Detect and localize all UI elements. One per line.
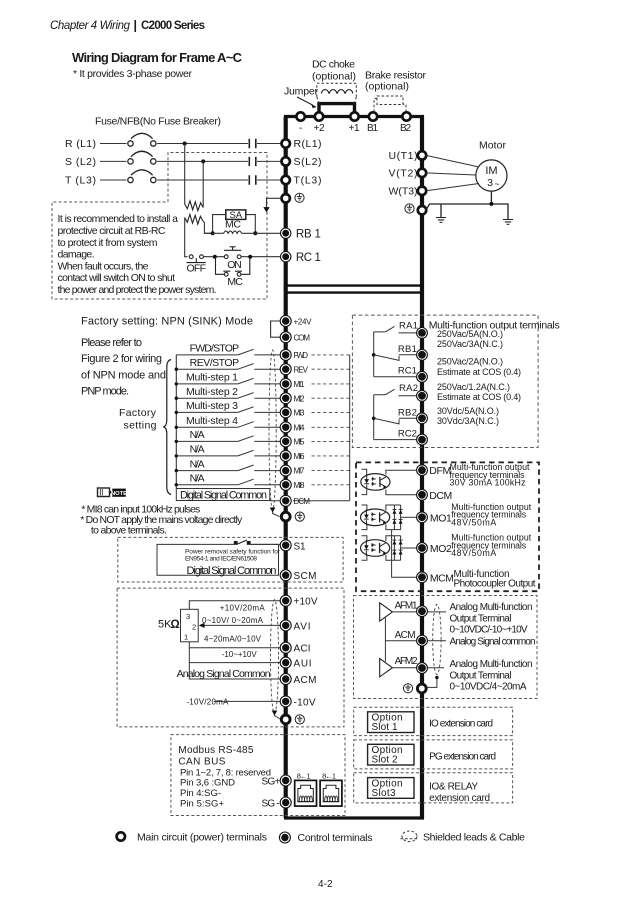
DC choke (optional) coil in dashed box (317, 83, 357, 103)
dashed link MI3 (312, 411, 350, 413)
svg-text:Jumper: Jumper (284, 86, 319, 98)
wire R to fuse (100, 143, 127, 145)
shielded cable ellipse (digital) (269, 350, 276, 510)
SA surge absorber box (226, 210, 246, 220)
earth at shield (503, 220, 513, 225)
junction on R line (183, 142, 187, 146)
svg-text:Output Terminal: Output Terminal (450, 613, 512, 624)
S1 dashed box (118, 537, 343, 582)
dashed link MI1 (312, 383, 350, 385)
svg-text:Slot3: Slot3 (372, 788, 396, 799)
svg-text:Figure 2 for wiring: Figure 2 for wiring (81, 353, 162, 365)
svg-text:Analog Multi-function: Analog Multi-function (450, 659, 533, 670)
svg-text:to above terminals.: to above terminals. (91, 525, 167, 537)
svg-text:to protect it from system: to protect it from system (58, 237, 158, 249)
svg-text:PG extension card: PG extension card (429, 751, 496, 762)
svg-text:-: - (299, 123, 302, 134)
legend shielded leads symbol (402, 831, 417, 842)
MC contactor coil (224, 231, 242, 233)
MO2 bracket wires (362, 536, 367, 561)
contactor contact S (249, 157, 256, 166)
svg-text:the power and protect the powe: the power and protect the power system. (58, 284, 217, 296)
pot pin1 to common (189, 642, 281, 679)
drive block bottom edge (284, 816, 424, 819)
right collector vertical (349, 355, 351, 501)
svg-text:MC: MC (227, 276, 243, 288)
svg-text:FWD/STOP: FWD/STOP (190, 343, 240, 355)
terminal -10V (280, 696, 291, 707)
svg-text:B1: B1 (367, 123, 378, 134)
svg-text:S (L2): S (L2) (65, 156, 96, 168)
wire MO1 to terminal (401, 516, 417, 518)
svg-text:MI7: MI7 (294, 467, 306, 476)
drive terminal S(L2) (282, 157, 290, 165)
svg-text:SCM: SCM (294, 571, 317, 582)
section separator double line (286, 286, 422, 293)
svg-text:Digital Signal Common: Digital Signal Common (187, 565, 277, 577)
svg-text:Analog Signal Common: Analog Signal Common (177, 668, 271, 680)
terminal MI2 (280, 393, 291, 404)
terminal MO1 (417, 512, 428, 523)
terminal ACI (280, 642, 291, 653)
svg-text:Ω: Ω (171, 619, 180, 631)
terminal +1 (350, 112, 358, 120)
RJ45 jack 1 (295, 780, 317, 806)
MO1 diode array (394, 505, 400, 530)
svg-text:T (L3): T (L3) (65, 175, 96, 187)
svg-text:REV: REV (294, 365, 309, 374)
svg-text:MI8: MI8 (294, 481, 306, 490)
drive left ground terminal (282, 194, 290, 202)
wire ON to RC1 (241, 256, 281, 258)
svg-text:Fuse/NFB(No Fuse Breaker): Fuse/NFB(No Fuse Breaker) (95, 116, 221, 128)
terminal RB1 (417, 349, 428, 360)
vertical from R junction (184, 144, 186, 205)
analog dashed box (117, 588, 344, 727)
terminal AVI (280, 620, 291, 631)
terminal +2 (315, 112, 323, 120)
terminal MI8 (280, 479, 291, 490)
svg-text:0~10VDC/4~20mA: 0~10VDC/4~20mA (450, 681, 527, 692)
protective circuit dashed boundary (52, 153, 267, 300)
terminal minus (296, 112, 304, 120)
svg-text:Estimate at COS (0.4): Estimate at COS (0.4) (437, 367, 521, 377)
switch N/A for MI8 (176, 484, 280, 486)
svg-text:N/A: N/A (190, 429, 205, 441)
analog output dashed box (354, 596, 538, 699)
svg-text:When fault occurs, the: When fault occurs, the (58, 260, 149, 272)
svg-text:30Vdc/5A(N.O.): 30Vdc/5A(N.O.) (437, 406, 499, 416)
OFF pushbutton (N.C.) (187, 255, 206, 263)
wire pot wiper to AVI with arrow (201, 624, 281, 626)
legend control terminal (279, 832, 290, 843)
svg-text:MI5: MI5 (294, 438, 306, 447)
svg-text:-10V/20mA: -10V/20mA (186, 698, 229, 707)
svg-text:Multi-step 2: Multi-step 2 (186, 386, 238, 398)
svg-text:~: ~ (494, 179, 499, 189)
relay RB1 N.C. contact (374, 355, 417, 361)
svg-text:8←1: 8←1 (322, 771, 336, 780)
svg-text:RA2: RA2 (399, 383, 418, 394)
svg-text:+24V: +24V (294, 317, 313, 326)
page header: chapter title (50, 19, 205, 33)
earth at motor frame (436, 218, 446, 223)
amp link vertical (384, 617, 386, 662)
svg-text:(optional): (optional) (312, 71, 356, 83)
wire -10V (214, 700, 281, 702)
svg-text:Chapter 4 Wiring: Chapter 4 Wiring (50, 20, 131, 32)
dashed link MI7 (312, 470, 350, 472)
wire S contact to terminal (257, 160, 282, 162)
svg-text:DCM: DCM (294, 497, 311, 506)
dashed link MI6 (312, 455, 350, 457)
svg-text:Wiring Diagram for Frame A~C: Wiring Diagram for Frame A~C (72, 50, 243, 65)
svg-text:S1: S1 (294, 541, 306, 552)
svg-text:1: 1 (184, 633, 188, 642)
RJ45 jack 2 (320, 780, 342, 806)
MC auxiliary contact branch (216, 257, 250, 276)
svg-text:of NPN mode and: of NPN mode and (81, 369, 166, 381)
switch N/A for MI7 (176, 470, 280, 472)
modbus dashed box (171, 735, 345, 816)
svg-text:setting: setting (124, 420, 157, 432)
svg-text:AVI: AVI (294, 621, 311, 632)
svg-text:Main circuit (power) terminals: Main circuit (power) terminals (137, 831, 267, 843)
terminal MI6 (280, 450, 291, 461)
svg-text:Photocoupler Output: Photocoupler Output (454, 579, 536, 590)
relay RB2 N.C. contact (374, 418, 417, 424)
wire resistor to MC coil node (203, 221, 213, 233)
svg-text:NOTE: NOTE (111, 491, 127, 497)
wire left branch down to OFF switch (185, 218, 188, 257)
option slot 3 box (368, 778, 414, 799)
svg-text:N/A: N/A (190, 458, 205, 470)
svg-text:+1: +1 (349, 123, 360, 134)
svg-text:Modbus RS-485: Modbus RS-485 (178, 745, 253, 756)
contactor contact R (249, 139, 256, 148)
ground stub into protective box (267, 198, 282, 208)
wire R fuse to contact (157, 143, 248, 145)
amplifier AFM1 (380, 603, 393, 621)
optocoupler MO2 (361, 540, 390, 557)
drive right ground terminal (405, 204, 414, 213)
svg-text:Pin 3,6 :GND: Pin 3,6 :GND (180, 778, 235, 789)
svg-text:IO& RELAY: IO& RELAY (429, 782, 478, 793)
wire MO2 to terminal (401, 547, 417, 549)
terminal +24V (280, 316, 291, 327)
svg-text:Analog Multi-function: Analog Multi-function (450, 602, 533, 613)
ON pushbutton (N.O.) (224, 247, 241, 259)
relay RC2 common wire (374, 439, 417, 441)
terminal ACM out (417, 635, 428, 646)
svg-text:3: 3 (186, 612, 190, 621)
svg-text:Output Terminal: Output Terminal (450, 670, 512, 681)
svg-text:Analog Signal common: Analog Signal common (450, 636, 536, 647)
junction on S line (201, 159, 205, 163)
legend main circuit terminal (117, 832, 125, 840)
svg-text:3: 3 (487, 177, 493, 189)
contactor contact T (249, 175, 256, 184)
dashed link MI8 (312, 484, 350, 486)
dashed link FWD (312, 354, 350, 356)
svg-text:RC 1: RC 1 (296, 252, 321, 264)
svg-text:Please refer to: Please refer to (81, 337, 142, 349)
wire AUI (190, 662, 281, 664)
switch FWD/STOP for FWD (176, 354, 280, 356)
drive block left bus (284, 117, 288, 819)
svg-text:48V/50mA: 48V/50mA (451, 517, 496, 527)
shielded cable ellipse (analog) (271, 600, 279, 714)
resistor upper (to RB) (185, 201, 204, 211)
terminal MI4 (280, 422, 291, 433)
relay RC1 common wire (374, 376, 417, 378)
switch Multi-step 1 for MI1 (176, 383, 280, 385)
svg-text:2: 2 (192, 623, 196, 632)
digital input common vertical (175, 355, 177, 489)
terminal B2 (402, 112, 410, 120)
MO1 bracket wires (362, 505, 367, 530)
svg-text:Motor: Motor (479, 140, 507, 152)
svg-text:8←1: 8←1 (297, 771, 311, 780)
multi-function output dashed box (352, 315, 538, 447)
svg-text:Slot 1: Slot 1 (372, 722, 398, 733)
svg-text:RB2: RB2 (398, 408, 417, 419)
terminal RA2 (417, 390, 428, 401)
relay 2 common vertical (373, 395, 375, 440)
svg-text:DCM: DCM (429, 490, 452, 502)
svg-text:RB 1: RB 1 (296, 228, 321, 240)
cable drain arrow (275, 714, 281, 720)
svg-text:DFM: DFM (429, 465, 451, 477)
switch Multi-step 2 for MI2 (176, 397, 280, 399)
svg-text:T(L3): T(L3) (294, 175, 322, 187)
wire ACM out (385, 640, 446, 642)
svg-text:4~20mA/0~10V: 4~20mA/0~10V (204, 634, 262, 643)
terminal MI7 (280, 465, 291, 476)
svg-text:EN954-1 and IEC/EN61508: EN954-1 and IEC/EN61508 (185, 556, 257, 563)
svg-text:MO2: MO2 (430, 543, 452, 555)
drive block right bus (420, 117, 424, 819)
svg-text:Control terminals: Control terminals (298, 832, 373, 844)
switch Multi-step 4 for MI4 (176, 426, 280, 428)
svg-text:REV/STOP: REV/STOP (190, 357, 240, 369)
svg-text:IM: IM (485, 165, 497, 177)
resistor lower (to RC) (185, 214, 203, 224)
brake resistor (optional) dashed box (374, 96, 406, 112)
svg-text:30V 30mA 100kHz: 30V 30mA 100kHz (450, 478, 526, 488)
dashed link MI2 (312, 397, 350, 399)
recommendation note text (58, 213, 217, 296)
svg-text:+2: +2 (314, 123, 325, 134)
digital common label box (176, 489, 269, 501)
wire T fuse to contact (157, 179, 248, 181)
relay 1 common vertical (373, 332, 375, 377)
terminal DCM2 (417, 489, 428, 500)
svg-text:MI6: MI6 (294, 452, 306, 461)
svg-text:S(L2): S(L2) (294, 156, 322, 168)
svg-text:FWD: FWD (294, 351, 309, 360)
terminal AUI (280, 657, 291, 668)
switch N/A for MI6 (176, 455, 280, 457)
AFM cable drain (427, 678, 437, 688)
terminal MI3 (280, 407, 291, 418)
curly brace (163, 360, 171, 495)
svg-text:Shielded leads & Cable: Shielded leads & Cable (423, 831, 525, 843)
svg-text:Digital Signal Common: Digital Signal Common (180, 489, 267, 501)
svg-text:-10V: -10V (294, 697, 316, 708)
terminal REV (280, 364, 291, 375)
wire R contact to terminal (257, 143, 282, 145)
relay RA2 N.O. contact (374, 395, 417, 396)
svg-text:U(T1): U(T1) (389, 150, 418, 162)
svg-text:contact will switch ON to shut: contact will switch ON to shut (58, 272, 176, 284)
+24V COM bracket wire (271, 321, 281, 337)
svg-text:ACI: ACI (294, 644, 311, 655)
svg-text:RA1: RA1 (399, 320, 418, 331)
svg-text:MI3: MI3 (294, 409, 306, 418)
fuse/NFB breaker S (128, 151, 156, 164)
svg-text:B2: B2 (400, 123, 411, 134)
AFM ground terminal (403, 684, 412, 693)
fuse/NFB breaker R (128, 133, 156, 146)
terminal RB2 (417, 413, 428, 424)
svg-text:250Vac/5A(N.O.): 250Vac/5A(N.O.) (437, 329, 503, 339)
DCM wire to box and right vertical (270, 500, 350, 502)
terminal COM (280, 332, 291, 343)
node dots on RB wire (211, 231, 215, 235)
option slot 2 dashed box (354, 740, 513, 769)
drive block top edge (284, 115, 424, 118)
svg-text:|: | (134, 19, 138, 33)
motor IM 3-phase (476, 160, 507, 191)
svg-text:SG -: SG - (262, 799, 280, 810)
terminal MCM (417, 572, 428, 583)
svg-text:250Vac/3A(N.C.): 250Vac/3A(N.C.) (437, 339, 503, 349)
svg-text:250Vac/2A(N.O.): 250Vac/2A(N.O.) (437, 356, 503, 366)
terminal AFM2 (417, 663, 428, 674)
motor ground wire (426, 191, 508, 219)
terminal MI5 (280, 436, 291, 447)
wire pot pin3 to +10V (189, 601, 281, 610)
svg-text:RB1: RB1 (398, 344, 417, 355)
svg-text:Multi-step 3: Multi-step 3 (186, 400, 238, 412)
terminal FWD (280, 349, 291, 360)
terminal B1 (369, 112, 377, 120)
svg-text:V(T2): V(T2) (389, 167, 418, 179)
svg-text:Power removal safety function: Power removal safety function for (185, 549, 281, 556)
wires U V W to motor (426, 155, 479, 190)
svg-text:C2000 Series: C2000 Series (141, 20, 205, 32)
svg-text:ACM: ACM (395, 630, 416, 641)
svg-text:30Vdc/3A(N.C.): 30Vdc/3A(N.C.) (437, 416, 499, 426)
svg-text:N/A: N/A (190, 444, 205, 456)
svg-text:CAN BUS: CAN BUS (178, 757, 225, 768)
amplifier AFM2 (380, 659, 393, 677)
svg-text:+10V: +10V (294, 597, 318, 608)
svg-text:MC: MC (225, 219, 241, 231)
MO2 diode array (394, 536, 400, 561)
wire S fuse to contact (157, 160, 248, 162)
svg-text:0~10V/ 0~20mA: 0~10V/ 0~20mA (202, 616, 264, 625)
terminal AFM1 (417, 606, 428, 617)
svg-text:-10~+10V: -10~+10V (222, 650, 258, 659)
svg-text:ON: ON (227, 259, 242, 271)
optocoupler MO1 (361, 509, 390, 526)
svg-text:W(T3): W(T3) (389, 185, 418, 197)
S1 safety switch (234, 540, 250, 544)
svg-text:N/A: N/A (190, 473, 205, 485)
svg-text:(optional): (optional) (365, 81, 409, 93)
switch REV/STOP for REV (176, 368, 280, 370)
switch Multi-step 3 for MI3 (176, 411, 280, 413)
option slot 2 box (368, 744, 414, 765)
svg-text:R(L1): R(L1) (294, 138, 322, 150)
power removal safety function box (157, 544, 279, 575)
svg-text:AUI: AUI (294, 659, 312, 670)
svg-text:Pin 5:SG+: Pin 5:SG+ (180, 799, 224, 810)
relay RA1 N.O. contact (374, 332, 417, 333)
terminal RC2 (417, 434, 428, 445)
terminal RC1 (281, 252, 291, 262)
svg-text:COM: COM (294, 334, 311, 343)
wire T contact to terminal (257, 179, 282, 181)
SA parallel branch wires (213, 215, 256, 234)
option slot 1 dashed box (354, 707, 513, 735)
MCM common wire (392, 530, 417, 578)
analog ground terminal (281, 715, 290, 724)
wire node to RB1 (204, 232, 280, 234)
cable drain to ground (273, 510, 280, 517)
drive terminal R(L1) (282, 139, 290, 147)
svg-text:protective circuit at RB-RC: protective circuit at RB-RC (58, 225, 166, 237)
photocoupler section bold dashed box (356, 462, 539, 591)
dashed link REV (312, 368, 350, 370)
svg-text:RC2: RC2 (398, 428, 417, 439)
NOTE icon (98, 488, 128, 497)
svg-text:MO1: MO1 (430, 512, 452, 524)
svg-text:IO extension card: IO extension card (429, 719, 493, 730)
svg-text:Factory setting: NPN (SINK) Mo: Factory setting: NPN (SINK) Mode (81, 316, 253, 328)
digital ground terminal (281, 512, 290, 521)
terminal +10V (280, 595, 291, 606)
wire OFF to ON (203, 256, 224, 258)
option slot 3 dashed box (354, 773, 513, 803)
svg-text:AFM1: AFM1 (395, 601, 418, 612)
wire AFM2 (392, 667, 444, 669)
wire S to fuse (100, 160, 127, 162)
svg-text:damage.: damage. (58, 249, 95, 261)
vertical from S junction (202, 161, 204, 207)
terminal DCM (280, 495, 291, 506)
dashed link MI4 (312, 426, 350, 428)
terminal S1 (280, 540, 291, 551)
optocoupler DFM (361, 474, 390, 491)
svg-text:4-2: 4-2 (318, 879, 333, 890)
terminal RB1 (281, 228, 291, 238)
terminal SCM (280, 570, 291, 581)
DFM bracket wires (362, 469, 367, 494)
wire ACI (190, 647, 281, 649)
svg-text:Multi-step 4: Multi-step 4 (186, 415, 238, 427)
svg-text:0~10VDC/-10~+10V: 0~10VDC/-10~+10V (450, 624, 528, 635)
potentiometer 5K box (181, 609, 199, 642)
terminal ACM (280, 674, 291, 685)
svg-text:Factory: Factory (119, 407, 157, 419)
fuse/NFB breaker T (128, 170, 156, 183)
shielded cable ellipse (AFM) (433, 605, 441, 675)
svg-text:DC choke: DC choke (312, 59, 355, 71)
terminal DFM (417, 465, 428, 476)
